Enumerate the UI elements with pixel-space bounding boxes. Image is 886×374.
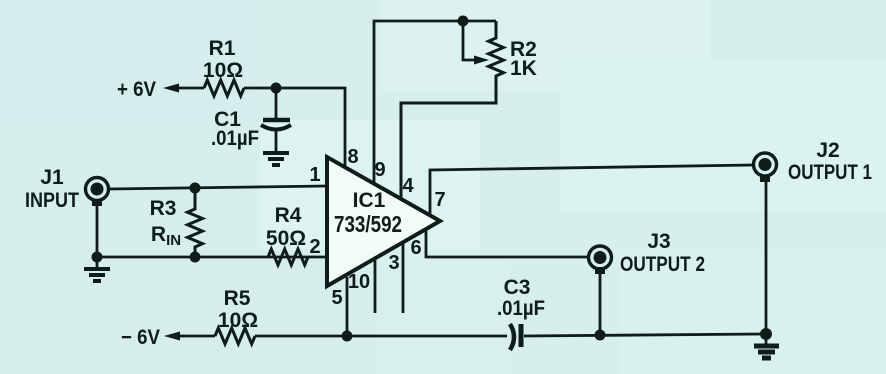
wire rail R5 to C3 xyxy=(255,335,507,338)
svg-text:6: 6 xyxy=(410,237,421,259)
wire rail C3 to ground xyxy=(524,334,766,336)
node pin5 rail xyxy=(342,331,353,342)
svg-text:4: 4 xyxy=(402,175,414,197)
wire pin 3 stub xyxy=(388,243,403,313)
svg-text:.01µF: .01µF xyxy=(497,297,545,320)
resistor R5 xyxy=(215,287,258,344)
svg-text:R3: R3 xyxy=(150,197,177,220)
svg-text:3: 3 xyxy=(388,252,399,274)
svg-text:+ 6V: + 6V xyxy=(117,78,156,101)
svg-text:7: 7 xyxy=(434,189,445,211)
wire pin 6 to J3 xyxy=(410,230,589,259)
connector J2 xyxy=(754,139,873,184)
svg-text:− 6V: − 6V xyxy=(121,326,160,349)
wire pin 5 to rail xyxy=(331,277,347,336)
svg-text:1K: 1K xyxy=(510,57,537,80)
svg-text:10Ω: 10Ω xyxy=(218,309,258,332)
svg-text:R1: R1 xyxy=(209,37,236,60)
wire pin 10 stub xyxy=(348,259,375,313)
connector J3 xyxy=(589,230,706,276)
wire R1 to pin8 xyxy=(244,88,345,167)
wire J1 ground leg xyxy=(96,204,99,257)
svg-text:IC1: IC1 xyxy=(353,189,386,212)
ground under C1 xyxy=(263,153,289,165)
svg-text:R4: R4 xyxy=(275,204,302,227)
wire J2 to ground xyxy=(765,180,768,333)
power -6V arrow xyxy=(121,326,215,349)
svg-text:9: 9 xyxy=(374,159,385,181)
node right ground xyxy=(760,328,772,340)
wire pin 7 to J2 xyxy=(430,165,753,215)
svg-text:INPUT: INPUT xyxy=(25,189,79,212)
wire J3 to rail xyxy=(599,272,602,335)
svg-text:C3: C3 xyxy=(504,276,531,299)
node R3 top xyxy=(190,183,201,194)
potentiometer R2 xyxy=(401,21,537,199)
power +6V arrow xyxy=(117,78,204,101)
svg-text:50Ω: 50Ω xyxy=(266,227,306,250)
ground under J1 xyxy=(84,257,110,281)
node R3 bottom xyxy=(190,252,201,263)
svg-text:733/592: 733/592 xyxy=(334,211,402,237)
resistor R4 xyxy=(266,204,308,265)
resistor R3 xyxy=(150,188,203,257)
resistor R1 xyxy=(203,37,244,96)
svg-text:J2: J2 xyxy=(816,139,839,162)
svg-text:10: 10 xyxy=(348,271,370,293)
node C1 tap xyxy=(271,83,282,94)
svg-text:2: 2 xyxy=(309,236,320,258)
node J1 ground xyxy=(92,252,103,263)
svg-text:R5: R5 xyxy=(224,287,251,310)
svg-text:1: 1 xyxy=(309,164,320,186)
svg-text:J1: J1 xyxy=(40,166,64,189)
svg-text:OUTPUT 1: OUTPUT 1 xyxy=(788,161,872,184)
ground right xyxy=(754,334,779,358)
node J3 rail xyxy=(595,330,606,341)
svg-text:.01µF: .01µF xyxy=(211,127,259,150)
svg-text:OUTPUT 2: OUTPUT 2 xyxy=(620,253,705,276)
svg-text:8: 8 xyxy=(347,146,358,168)
wire lower row to pin2 xyxy=(97,256,327,259)
wire J1 to pin1 xyxy=(108,186,327,189)
capacitor C1 xyxy=(211,88,291,152)
node top junction xyxy=(458,16,469,27)
capacitor C3 xyxy=(497,276,545,350)
connector J1 xyxy=(25,166,109,212)
svg-text:J3: J3 xyxy=(647,230,670,253)
svg-text:10Ω: 10Ω xyxy=(203,59,243,82)
op-amp IC1 733/592 xyxy=(327,157,440,286)
wire top rail pin9 to R2 xyxy=(374,21,496,184)
svg-text:5: 5 xyxy=(331,287,342,309)
